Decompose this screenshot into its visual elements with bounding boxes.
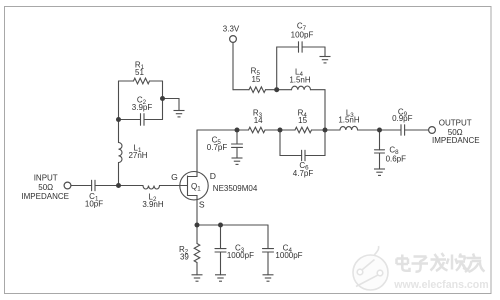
svg-text:1000pF: 1000pF [275, 251, 302, 260]
svg-text:0.6pF: 0.6pF [386, 155, 407, 164]
svg-text:0.7pF: 0.7pF [207, 143, 228, 152]
svg-text:14: 14 [254, 116, 263, 125]
svg-text:G: G [171, 172, 178, 182]
svg-text:NE3509M04: NE3509M04 [213, 184, 258, 193]
svg-text:3.9nH: 3.9nH [142, 200, 164, 209]
svg-text:0.9pF: 0.9pF [392, 114, 413, 123]
svg-text:3.9pF: 3.9pF [132, 103, 153, 112]
svg-text:50Ω: 50Ω [38, 183, 53, 192]
svg-text:3.3V: 3.3V [223, 25, 240, 34]
svg-text:IMPEDANCE: IMPEDANCE [432, 136, 480, 145]
svg-text:S: S [199, 199, 205, 209]
svg-text:15: 15 [251, 75, 260, 84]
svg-text:OUTPUT: OUTPUT [439, 118, 472, 127]
svg-text:D: D [210, 171, 216, 181]
svg-text:15: 15 [298, 116, 307, 125]
svg-text:Q1: Q1 [191, 182, 201, 193]
svg-text:www.elecfans.com: www.elecfans.com [393, 279, 488, 291]
svg-text:IMPEDANCE: IMPEDANCE [21, 192, 69, 201]
svg-text:10pF: 10pF [85, 200, 103, 209]
svg-text:51: 51 [135, 68, 144, 77]
svg-text:1.5nH: 1.5nH [338, 116, 360, 125]
svg-text:100pF: 100pF [291, 31, 314, 40]
svg-text:39: 39 [180, 253, 189, 262]
svg-text:INPUT: INPUT [34, 173, 58, 182]
svg-text:4.7pF: 4.7pF [293, 169, 314, 178]
svg-text:1.5nH: 1.5nH [289, 76, 311, 85]
svg-text:1000pF: 1000pF [227, 251, 254, 260]
svg-text:27nH: 27nH [128, 151, 147, 160]
